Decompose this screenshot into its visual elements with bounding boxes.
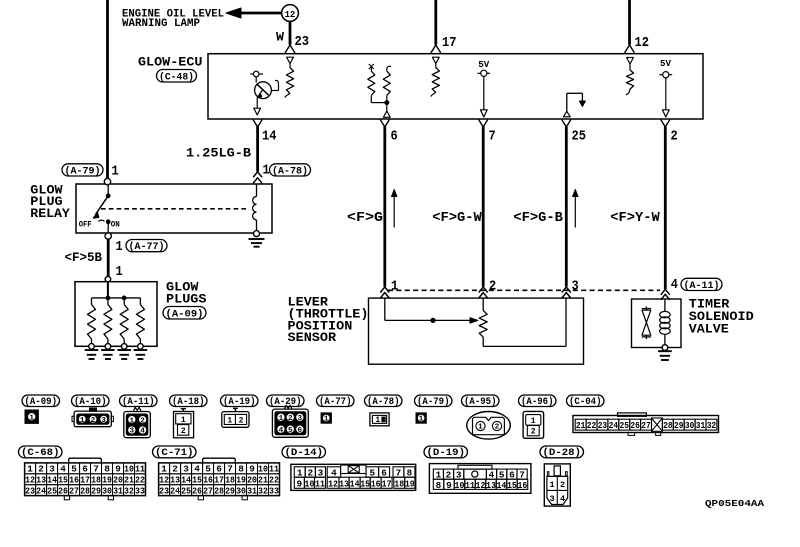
svg-text:1: 1 <box>263 163 270 179</box>
svg-text:2: 2 <box>288 415 293 423</box>
svg-text:ON: ON <box>111 220 120 230</box>
ground - relay coil <box>249 239 265 247</box>
svg-text:13: 13 <box>36 475 46 486</box>
svg-text:14: 14 <box>47 475 57 486</box>
svg-text:9: 9 <box>249 464 255 475</box>
svg-text:2: 2 <box>140 417 145 425</box>
svg-text:1: 1 <box>550 480 555 490</box>
connector label A-77 <box>126 240 167 254</box>
svg-text:12: 12 <box>476 481 486 491</box>
svg-text:6: 6 <box>298 427 303 435</box>
svg-text:19: 19 <box>102 475 112 486</box>
svg-text:32: 32 <box>124 486 134 497</box>
ground - timer solenoid valve <box>658 351 672 360</box>
pin 7 exit terminal <box>479 120 488 128</box>
connector label A-29 <box>267 395 305 407</box>
svg-text:15: 15 <box>192 475 202 486</box>
glow ECU label <box>138 55 203 70</box>
svg-text:(A-18): (A-18) <box>172 396 205 407</box>
svg-text:30: 30 <box>102 486 112 497</box>
svg-text:2: 2 <box>531 428 536 437</box>
sensor pin 3 entry arrows <box>562 287 571 298</box>
svg-text:VALVE: VALVE <box>689 322 729 337</box>
pin 1 label at A-79 <box>112 164 119 180</box>
pin 1 label at glow plugs <box>116 264 123 280</box>
svg-text:25: 25 <box>620 421 630 431</box>
svg-text:22: 22 <box>135 475 145 486</box>
svg-text:(D-14): (D-14) <box>285 447 324 458</box>
pin 14 internal output triangle <box>254 108 261 115</box>
svg-text:<F>G-W: <F>G-W <box>432 211 482 226</box>
connector C-04 pinout <box>573 413 719 436</box>
svg-text:28: 28 <box>663 421 673 431</box>
svg-text:7: 7 <box>227 464 233 475</box>
svg-text:16: 16 <box>371 479 381 489</box>
svg-text:2: 2 <box>560 480 565 490</box>
connector label A-10 <box>72 395 110 407</box>
pin 14 exit terminal <box>253 120 262 128</box>
wire to ECU pin 12 <box>625 0 635 53</box>
svg-text:(A-09): (A-09) <box>166 308 204 320</box>
svg-text:2: 2 <box>172 464 178 475</box>
connector label C-48 <box>157 70 197 84</box>
svg-text:W: W <box>276 30 284 45</box>
svg-text:1: 1 <box>391 279 398 295</box>
svg-text:17: 17 <box>214 475 224 486</box>
connector A-29 pinout <box>272 405 308 437</box>
svg-text:15: 15 <box>58 475 68 486</box>
valve pin 4 entry arrows <box>661 289 670 300</box>
connector label A-09 <box>163 307 206 321</box>
svg-text:27: 27 <box>641 421 651 431</box>
svg-text:29: 29 <box>674 421 684 431</box>
svg-text:11: 11 <box>135 464 145 475</box>
relay terminal - coil bottom circle <box>254 231 260 237</box>
valve terminal circle <box>662 345 668 351</box>
wire 1.25LG-B from ECU pin 14 to relay A-78 <box>256 127 259 172</box>
svg-text:1: 1 <box>279 415 284 423</box>
svg-text:11: 11 <box>465 481 475 491</box>
pin 6 internal triangle <box>383 111 390 117</box>
connector label A-11 top <box>681 278 722 292</box>
ground - glow plug 3 <box>117 350 131 359</box>
svg-text:3: 3 <box>550 494 555 504</box>
svg-text:9: 9 <box>297 479 303 489</box>
svg-text:(A-11): (A-11) <box>122 396 155 407</box>
svg-text:5: 5 <box>205 464 211 475</box>
svg-text:1: 1 <box>478 424 483 432</box>
pin 17 label <box>442 35 457 51</box>
svg-text:1: 1 <box>161 464 167 475</box>
svg-text:10: 10 <box>305 479 315 489</box>
label (F)G-W <box>432 211 482 226</box>
svg-text:10: 10 <box>124 464 134 475</box>
svg-text:22: 22 <box>269 475 279 486</box>
svg-text:1: 1 <box>116 239 123 255</box>
svg-text:14: 14 <box>262 128 277 144</box>
svg-text:1: 1 <box>116 264 123 280</box>
connector A-78 entry arrows <box>253 172 262 184</box>
svg-text:26: 26 <box>58 486 68 497</box>
valve symbol <box>642 307 651 340</box>
svg-text:<F>Y-W: <F>Y-W <box>610 211 660 226</box>
svg-text:28: 28 <box>214 486 224 497</box>
svg-text:26: 26 <box>630 421 640 431</box>
svg-text:4: 4 <box>279 427 284 435</box>
svg-text:5: 5 <box>71 464 77 475</box>
relay terminal - top circle A-79 <box>104 178 110 184</box>
wire F 5B from relay to glow plugs <box>107 239 110 276</box>
svg-text:RELAY: RELAY <box>30 206 70 221</box>
resistor - ECU pull-up on pin 12 <box>626 58 634 96</box>
svg-text:7: 7 <box>489 128 496 144</box>
svg-text:21: 21 <box>576 421 586 431</box>
wire (F)G-W to sensor pin 2 <box>482 127 485 287</box>
svg-text:(A-96): (A-96) <box>521 396 554 407</box>
pin 2 label <box>671 128 678 144</box>
wire - left main vertical feed to glow plug relay <box>106 0 109 178</box>
svg-text:14: 14 <box>181 475 191 486</box>
glow plugs label <box>166 280 207 307</box>
solenoid coil <box>660 299 671 345</box>
pin 25 label <box>572 128 587 144</box>
svg-text:6: 6 <box>391 128 398 144</box>
label (F)G-B <box>513 211 563 226</box>
svg-text:1: 1 <box>80 417 85 425</box>
node 12 - circled junction 12 <box>282 5 299 22</box>
svg-text:(D-28): (D-28) <box>543 447 582 458</box>
svg-text:(A-77): (A-77) <box>129 241 165 253</box>
svg-text:3: 3 <box>130 428 135 436</box>
glow plugs box A-09 <box>75 282 157 347</box>
svg-text:1: 1 <box>324 416 329 424</box>
svg-text:5V: 5V <box>660 59 672 69</box>
label F 5B wire color <box>65 250 103 265</box>
ground - glow plug 4 <box>134 350 148 359</box>
label ON <box>111 220 120 230</box>
label 1.25LG-B wire size and color <box>186 146 251 161</box>
svg-text:25: 25 <box>181 486 191 497</box>
connector label A-09 <box>22 395 60 407</box>
svg-text:GLOW-ECU: GLOW-ECU <box>138 55 203 70</box>
connector A-10 pinout <box>72 408 113 427</box>
connector A-11 pinout <box>124 407 151 437</box>
glow plug relay label <box>30 183 70 222</box>
svg-text:25: 25 <box>47 486 57 497</box>
svg-text:31: 31 <box>113 486 123 497</box>
connector label D-19 <box>424 446 468 458</box>
svg-text:20: 20 <box>113 475 123 486</box>
svg-text:32: 32 <box>707 421 717 431</box>
svg-text:23: 23 <box>598 421 608 431</box>
svg-text:QP05E04AA: QP05E04AA <box>705 498 764 509</box>
svg-text:12: 12 <box>159 475 169 486</box>
svg-text:17: 17 <box>80 475 90 486</box>
sensor pin 2 entry arrows <box>479 287 488 298</box>
glow plugs internal bus wire <box>92 282 141 300</box>
relay switch <box>93 185 110 233</box>
svg-text:24: 24 <box>36 486 46 497</box>
svg-text:33: 33 <box>269 486 279 497</box>
resistor pair - ECU sensor input pin 6 <box>368 64 391 111</box>
svg-text:16: 16 <box>203 475 213 486</box>
svg-text:17: 17 <box>442 35 457 51</box>
svg-text:18: 18 <box>394 479 404 489</box>
connector A-79 pinout <box>416 413 426 424</box>
connector A-19 pinout <box>222 408 249 427</box>
resistor - ECU pull-up on pin 23 <box>285 57 294 97</box>
connector A-11 dashed line <box>388 289 660 291</box>
svg-text:31: 31 <box>696 421 706 431</box>
svg-text:21: 21 <box>124 475 134 486</box>
connector D-19 pinout <box>429 464 531 494</box>
svg-text:13: 13 <box>486 481 496 491</box>
glow plug element 4 <box>136 298 144 349</box>
svg-text:1: 1 <box>29 414 34 422</box>
timer solenoid valve box <box>632 299 682 348</box>
svg-text:6: 6 <box>82 464 88 475</box>
glow plugs terminal circle <box>105 276 111 282</box>
connector label D-14 <box>282 446 326 458</box>
svg-text:2: 2 <box>38 464 44 475</box>
connector label A-11 <box>120 395 158 407</box>
connector D-14 pinout <box>291 464 416 490</box>
svg-text:2: 2 <box>239 416 244 425</box>
svg-text:17: 17 <box>382 479 392 489</box>
svg-text:3: 3 <box>572 279 579 295</box>
svg-text:22: 22 <box>587 421 597 431</box>
connector label C-71 <box>153 446 197 458</box>
potentiometer - throttle sensor <box>479 298 487 346</box>
svg-text:14: 14 <box>350 479 360 489</box>
relay coil <box>253 184 257 231</box>
relay terminal - bottom circle A-77 <box>105 233 111 239</box>
pin 1 label at A-78 <box>263 163 270 179</box>
svg-text:3: 3 <box>49 464 55 475</box>
svg-text:(D-19): (D-19) <box>427 447 466 458</box>
svg-text:2: 2 <box>495 424 500 432</box>
svg-text:12: 12 <box>25 475 35 486</box>
svg-text:1: 1 <box>27 464 33 475</box>
label F Y-W <box>610 211 660 226</box>
connector label A-79 <box>415 395 453 407</box>
resistor - ECU pull-up on pin 17 <box>431 57 440 96</box>
svg-text:<F>G-B: <F>G-B <box>513 211 563 226</box>
svg-text:2: 2 <box>671 128 678 144</box>
connector A-18 pinout <box>174 409 194 438</box>
svg-text:23: 23 <box>25 486 35 497</box>
connector label A-95 <box>462 395 500 407</box>
svg-text:6: 6 <box>216 464 222 475</box>
svg-text:32: 32 <box>258 486 268 497</box>
lever throttle position sensor label <box>288 295 369 345</box>
connector label C-04 <box>567 395 605 407</box>
glow plug relay box <box>76 184 272 233</box>
pin 25 internal signal hook <box>563 93 585 117</box>
glow plug element 2 <box>104 298 112 349</box>
svg-text:WARNING LAMP: WARNING LAMP <box>122 18 200 30</box>
wire to ECU pin 17 <box>431 0 441 53</box>
connector label D-28 <box>540 446 584 458</box>
svg-text:(A-29): (A-29) <box>269 396 302 407</box>
wire (F)G to sensor pin 1 <box>383 127 386 287</box>
relay mechanical link dashed line <box>101 208 249 210</box>
label W wire color <box>276 30 284 45</box>
connector D-28 pinout <box>544 464 570 506</box>
svg-text:1: 1 <box>112 164 119 180</box>
svg-text:13: 13 <box>339 479 349 489</box>
svg-text:25: 25 <box>572 128 587 144</box>
svg-text:(A-11): (A-11) <box>684 280 720 292</box>
drawing number QP05E04AA <box>705 498 764 509</box>
svg-text:23: 23 <box>295 34 310 50</box>
svg-text:3: 3 <box>101 417 106 425</box>
svg-text:26: 26 <box>192 486 202 497</box>
svg-text:SENSOR: SENSOR <box>288 330 337 345</box>
svg-text:16: 16 <box>69 475 79 486</box>
svg-text:1: 1 <box>181 416 186 425</box>
glow plug element 3 <box>120 298 128 349</box>
svg-text:16: 16 <box>517 481 527 491</box>
ground - glow plug 1 <box>85 350 99 359</box>
svg-text:28: 28 <box>80 486 90 497</box>
svg-text:(C-71): (C-71) <box>155 447 194 458</box>
svg-text:(A-19): (A-19) <box>223 396 256 407</box>
svg-text:15: 15 <box>507 481 517 491</box>
connector A-78 pinout <box>370 413 389 426</box>
pin 6 exit terminal <box>380 120 389 128</box>
svg-text:10: 10 <box>258 464 268 475</box>
svg-text:(A-10): (A-10) <box>74 396 107 407</box>
pin 23 label <box>295 34 310 50</box>
5V supply - ECU pin 2 <box>659 59 672 117</box>
svg-text:5: 5 <box>288 427 293 435</box>
pin 4 label <box>671 277 678 293</box>
svg-text:30: 30 <box>236 486 246 497</box>
connector label A-79 <box>62 164 103 178</box>
svg-text:(C-68): (C-68) <box>21 447 60 458</box>
label OFF <box>79 220 92 230</box>
svg-text:PLUGS: PLUGS <box>166 292 207 307</box>
svg-text:1: 1 <box>375 416 380 425</box>
direction arrow on wire F G <box>392 190 397 228</box>
svg-text:1: 1 <box>419 416 424 424</box>
throttle position sensor box <box>369 298 584 364</box>
svg-text:8: 8 <box>436 481 442 491</box>
transistor Q1 - ECU lamp driver <box>250 71 278 107</box>
svg-text:4: 4 <box>140 428 145 436</box>
svg-text:1: 1 <box>227 416 232 425</box>
svg-text:24: 24 <box>609 421 619 431</box>
engine oil level warning lamp label <box>122 9 224 31</box>
svg-text:2: 2 <box>489 279 496 295</box>
svg-text:12: 12 <box>285 9 296 20</box>
svg-text:12: 12 <box>635 35 650 51</box>
svg-text:OFF: OFF <box>79 220 92 230</box>
svg-text:27: 27 <box>69 486 79 497</box>
svg-text:19: 19 <box>405 479 415 489</box>
connector label C-68 <box>19 446 63 458</box>
label (F)G <box>347 211 383 226</box>
svg-text:20: 20 <box>247 475 257 486</box>
ground - glow plug 2 <box>101 350 115 359</box>
glow plug element 1 <box>88 298 96 349</box>
connector A-09 pinout <box>25 410 38 423</box>
svg-text:(A-95): (A-95) <box>464 396 497 407</box>
timer solenoid valve label <box>689 297 754 337</box>
svg-text:12: 12 <box>328 479 338 489</box>
connector C-71 pinout <box>159 458 280 500</box>
svg-text:15: 15 <box>360 479 370 489</box>
wire - arrow to engine oil level warning lamp <box>226 8 287 18</box>
svg-text:30: 30 <box>685 421 695 431</box>
svg-text:5V: 5V <box>478 60 490 70</box>
wire (F)G-B to sensor pin 3 <box>565 127 568 287</box>
svg-text:33: 33 <box>135 486 145 497</box>
svg-text:3: 3 <box>183 464 189 475</box>
sensor wiper wire from pin 1 <box>385 298 478 323</box>
svg-text:<F>G: <F>G <box>347 211 383 226</box>
svg-text:(C-48): (C-48) <box>159 71 194 83</box>
connector label A-77 <box>317 395 355 407</box>
svg-text:23: 23 <box>159 486 169 497</box>
svg-text:8: 8 <box>238 464 244 475</box>
connector C-68 pinout <box>25 458 146 500</box>
connector A-95 pinout <box>467 412 511 440</box>
svg-text:18: 18 <box>225 475 235 486</box>
sensor pin 2 label <box>489 279 496 295</box>
svg-text:21: 21 <box>258 475 268 486</box>
sensor pin 3 label <box>572 279 579 295</box>
connector A-96 pinout <box>523 411 544 438</box>
svg-text:27: 27 <box>203 486 213 497</box>
connector A-77 pinout <box>321 413 331 424</box>
svg-text:7: 7 <box>93 464 99 475</box>
svg-text:(A-77): (A-77) <box>319 396 352 407</box>
glow ECU box C-48 <box>208 54 703 119</box>
pin 14 label <box>262 128 277 144</box>
pin 7 label <box>489 128 496 144</box>
svg-text:9: 9 <box>115 464 121 475</box>
svg-text:4: 4 <box>194 464 200 475</box>
pin 1 label at A-77 <box>116 239 123 255</box>
svg-text:4: 4 <box>560 494 565 504</box>
svg-text:4: 4 <box>60 464 66 475</box>
svg-text:1: 1 <box>531 417 536 426</box>
pin 12 label <box>635 35 650 51</box>
svg-text:10: 10 <box>455 481 465 491</box>
svg-text:(A-78): (A-78) <box>367 396 400 407</box>
pin 25 exit terminal <box>562 120 571 128</box>
svg-text:4: 4 <box>671 277 678 293</box>
wire sensor ground return to pin 3 <box>483 298 566 346</box>
svg-text:(A-79): (A-79) <box>65 165 101 177</box>
wire W to ECU pin 23 <box>285 21 295 53</box>
connector label A-19 <box>221 395 259 407</box>
svg-text:9: 9 <box>446 481 452 491</box>
pin 6 label <box>391 128 398 144</box>
svg-text:2: 2 <box>181 427 186 436</box>
svg-text:2: 2 <box>91 417 96 425</box>
svg-text:1: 1 <box>130 417 135 425</box>
svg-text:18: 18 <box>91 475 101 486</box>
sensor pin 1 label <box>391 279 398 295</box>
sensor pin 1 entry arrows <box>380 287 389 298</box>
direction arrow on wire F G-B <box>573 190 578 228</box>
svg-text:31: 31 <box>247 486 257 497</box>
svg-text:19: 19 <box>236 475 246 486</box>
svg-text:29: 29 <box>91 486 101 497</box>
